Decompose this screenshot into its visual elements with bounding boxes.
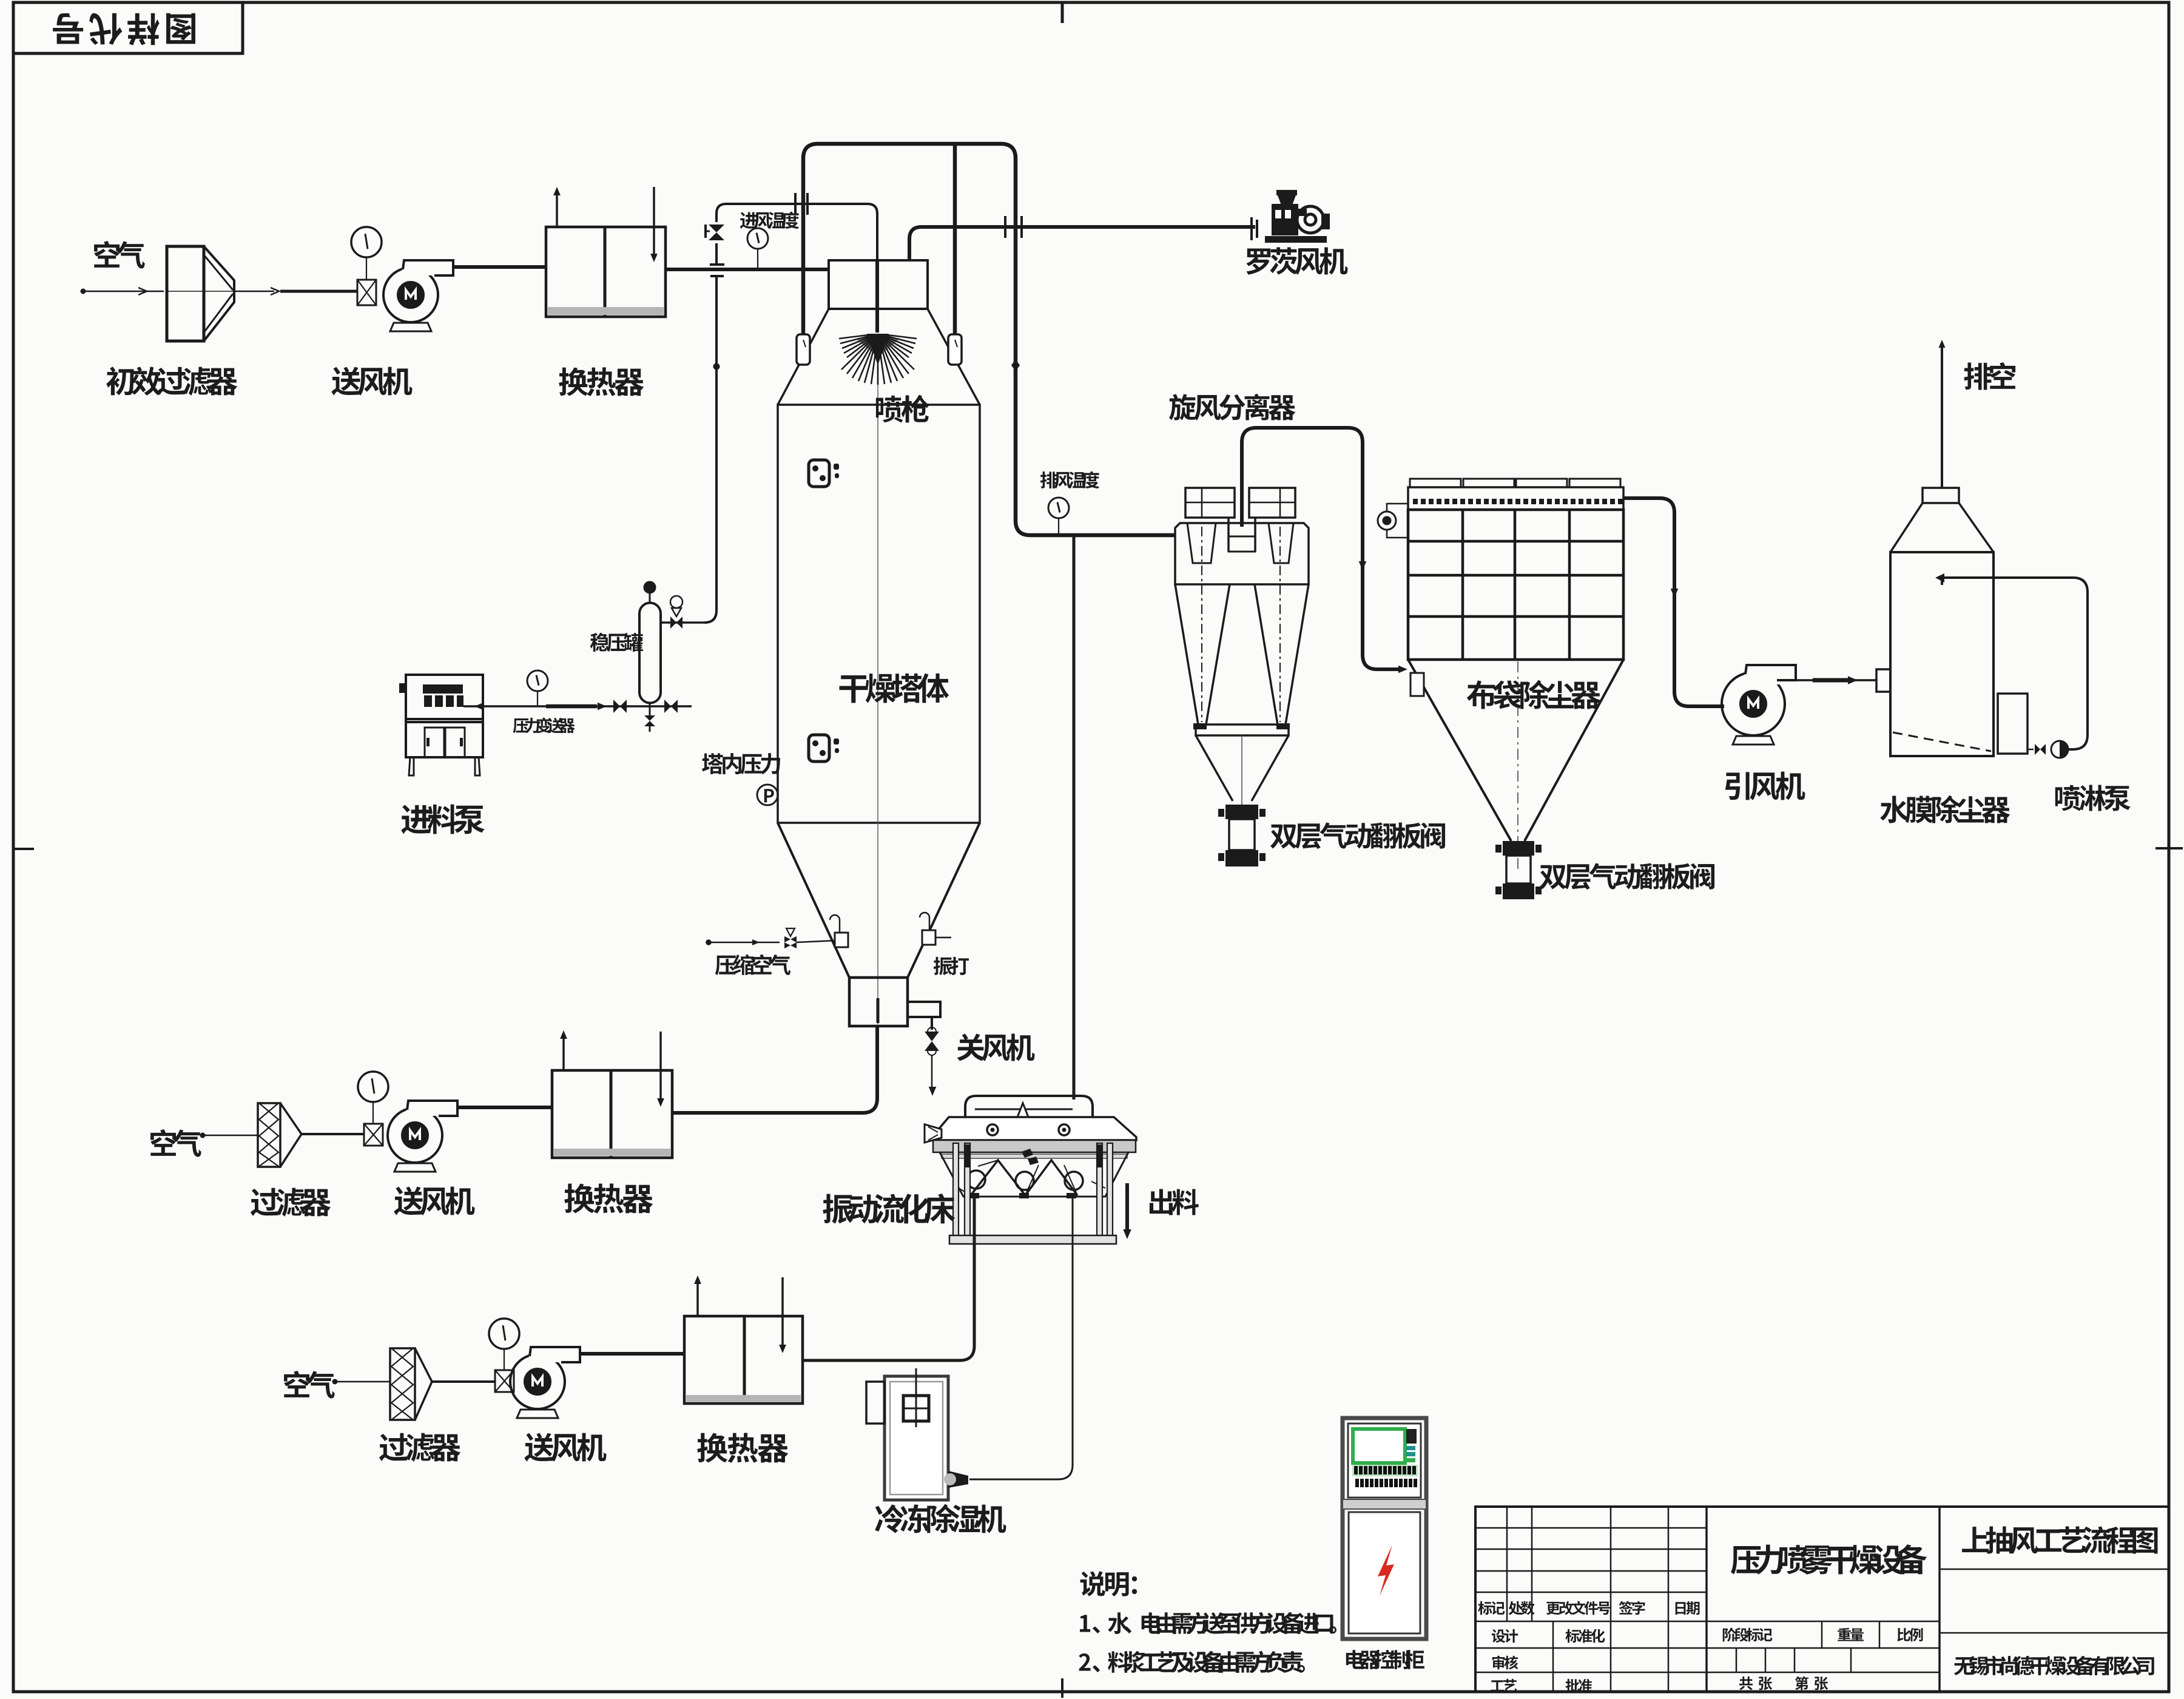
freeze dehumidifier 冷冻除湿机	[885, 1376, 948, 1500]
water film scrubber 水膜除尘器	[1923, 488, 1959, 503]
air inlet line	[82, 291, 164, 292]
vessel drain valve	[649, 703, 651, 716]
bed eccentric bolts	[1022, 1149, 1033, 1158]
label 送风机 (middle)	[394, 1187, 474, 1215]
label 振打 (smudged)	[934, 957, 969, 975]
rotary valve 关风机	[931, 1017, 933, 1030]
filter 过滤器 (middle)	[258, 1103, 280, 1167]
label 水膜除尘器	[1880, 795, 2010, 823]
border centering tick right	[2155, 847, 2183, 849]
label 双层气动翻板阀 (bag filter)	[1540, 863, 1714, 890]
heat exchanger 换热器 (top)	[546, 227, 666, 317]
compressed air line 压缩空气	[706, 940, 711, 945]
flexible joint (square with X)	[357, 280, 376, 305]
bed right underside duct to dehumidifier	[969, 1198, 1073, 1479]
vessel top outlet line w/ valve	[661, 621, 704, 624]
label 过滤器 (middle)	[251, 1188, 331, 1217]
label 关风机	[957, 1034, 1035, 1061]
tower body 干燥塔体	[778, 405, 980, 823]
hopper inlet notch	[1410, 673, 1424, 696]
riser globe valve w/ handle	[709, 225, 724, 240]
sight glass lower	[809, 735, 829, 762]
cyclone outlet pipe to bag filter	[1242, 428, 1403, 669]
tower cone	[778, 823, 980, 978]
vibrating fluid bed 振动流化床	[965, 1096, 1093, 1117]
feed line from pump	[463, 705, 649, 708]
label 空气 (top air inlet)	[94, 241, 145, 269]
steam arrow down	[653, 187, 655, 257]
bed legs	[953, 1143, 959, 1238]
label 送风机	[331, 367, 412, 396]
fan to scrubber line	[1796, 679, 1876, 681]
vortex finders	[1187, 523, 1216, 563]
label 送风机 (bottom)	[524, 1433, 606, 1462]
gauge 进风温度	[757, 249, 758, 269]
filter hopper	[1408, 660, 1623, 841]
border centering tick left	[13, 848, 34, 850]
lance end mark	[877, 998, 880, 1023]
shoulder nozzle right	[948, 334, 962, 365]
discharge arrow 出料	[1125, 1183, 1129, 1229]
flap valve (bag filter)	[1503, 841, 1534, 856]
title block small labels	[1478, 1601, 1505, 1615]
top plenum	[1408, 487, 1623, 510]
bed left underside duct to heater3	[803, 1198, 974, 1360]
label 换热器 (middle)	[564, 1183, 653, 1213]
label 压缩空气	[715, 954, 790, 975]
joint + gauge	[364, 1124, 383, 1146]
filter 过滤器 (bottom)	[390, 1348, 415, 1420]
steam arrow up	[556, 192, 558, 227]
rotated text 图样代号	[53, 13, 195, 46]
fluid bed exhaust riser	[1073, 535, 1076, 1099]
center connector	[1228, 518, 1255, 552]
cyclone cones	[1175, 584, 1309, 725]
label 换热器 (bottom)	[697, 1433, 788, 1462]
sight glass upper	[809, 460, 829, 487]
label 振动流化床	[823, 1194, 955, 1224]
red lightning symbol	[1378, 1545, 1394, 1596]
feed valve 1	[613, 700, 627, 713]
bag filter outlet to fan	[1623, 498, 1724, 706]
buffer vessel 稳压罐	[639, 603, 661, 703]
air hammer nozzle left	[830, 915, 840, 934]
main hot air line to tower header	[666, 268, 829, 271]
blower 送风机 (bottom)	[510, 1354, 565, 1409]
label 旋风分离器	[1169, 394, 1296, 421]
flanges at crossing	[1004, 216, 1006, 238]
tower outlet box	[849, 978, 908, 1026]
tower side outlet	[908, 1002, 940, 1017]
label 干燥塔体	[839, 674, 949, 703]
title box top-left (rotated drawing-code box)	[13, 2, 243, 53]
cyclone body	[1175, 523, 1309, 584]
blower 送风机 (top)	[383, 268, 438, 322]
label 空气 (bottom)	[284, 1371, 335, 1399]
primary filter 初效过滤器	[167, 246, 204, 341]
label 电器控制柜	[1346, 1650, 1424, 1669]
recirculation pipe	[1944, 578, 2088, 749]
spray lance	[875, 260, 879, 333]
tower top header box	[829, 260, 928, 309]
label 罗茨风机	[1246, 248, 1347, 275]
label 喷淋泵	[2055, 785, 2131, 811]
flap valve (cyclone) 双层气动翻板阀	[1225, 805, 1258, 819]
roots blower 罗茨风机	[1250, 217, 1253, 240]
label 布袋除尘器	[1467, 680, 1601, 709]
shoulder nozzle left	[797, 334, 810, 365]
dp gauge	[1378, 512, 1396, 530]
junction dot on riser	[713, 363, 720, 370]
exhaust top pipe	[803, 144, 1175, 535]
riser crossing flanges on main air line	[710, 263, 724, 266]
label 压力变送器 (smudged)	[513, 718, 575, 734]
label 排空	[1964, 362, 2015, 390]
label 喷枪	[876, 395, 929, 423]
border centering tick bottom	[1061, 1678, 1063, 1698]
gauge at blower	[366, 257, 367, 280]
bed deck	[932, 1117, 1136, 1140]
flanges on feed line	[794, 193, 797, 215]
label 双层气动翻板阀 (cyclone)	[1270, 822, 1445, 849]
tower shoulder	[778, 309, 980, 405]
label 引风机	[1725, 772, 1805, 800]
label 冷冻除湿机	[875, 1504, 1006, 1533]
feed pressure gauge	[537, 692, 538, 706]
spray pump 喷淋泵	[2051, 741, 2068, 758]
label 排风温度 (smudged)	[1040, 471, 1099, 489]
title block table	[1475, 1507, 2169, 1692]
line filter to blower	[234, 291, 274, 292]
label 稳压罐 (smudged)	[590, 633, 643, 652]
bed inlet clip	[925, 1124, 942, 1143]
riser top elbow to lance	[716, 204, 877, 260]
label 空气 (middle)	[150, 1129, 201, 1157]
tower centerline	[877, 340, 878, 1024]
blower 送风机 (middle)	[388, 1108, 442, 1163]
spray plume 喷枪	[839, 335, 917, 385]
bag filter 布袋除尘器 top caps	[1410, 479, 1461, 487]
tower discharge pipe to train1 line	[672, 1026, 877, 1113]
collector	[1196, 725, 1289, 735]
air hammer nozzle right 振打	[920, 913, 929, 932]
label 塔内压力	[702, 753, 780, 774]
roots blower line	[909, 227, 1255, 260]
label 出料	[1150, 1189, 1199, 1215]
feed pump 进料泵 cabinet	[406, 675, 483, 722]
gauge 排风温度	[1058, 518, 1059, 535]
induced draft fan 引风机	[1722, 672, 1785, 735]
heater1 outlet line	[672, 1111, 686, 1115]
bed trough + springs	[940, 1152, 1128, 1197]
label 上抽风工艺流程图	[1962, 1526, 2157, 1554]
label 压力喷雾干燥设备	[1731, 1544, 1927, 1575]
notes 说明	[1080, 1571, 1137, 1596]
air line	[200, 1135, 258, 1137]
control cabinet 电器控制柜	[1343, 1418, 1426, 1639]
heat exchanger 换热器 (middle)	[552, 1070, 672, 1158]
label 初效过滤器	[106, 366, 237, 396]
label 过滤器 (bottom)	[379, 1433, 460, 1462]
tower pressure gauge P 塔内压力	[757, 785, 778, 805]
label 换热器	[559, 367, 644, 396]
heat exchanger 换热器 (bottom)	[684, 1316, 803, 1403]
centerlines	[1201, 527, 1202, 722]
label 无锡市尚德干燥设备有限公司	[1954, 1656, 2154, 1675]
feed riser elbow	[704, 277, 716, 623]
twin cyclone 旋风分离器	[1185, 488, 1235, 518]
label 进风温度 (smudged)	[740, 212, 799, 229]
bed bottom frame	[949, 1235, 1116, 1244]
filter grid body	[1408, 510, 1623, 660]
exhaust downpipe mid	[953, 144, 957, 336]
pump legs	[409, 757, 414, 775]
feed valve 2	[664, 700, 678, 713]
line blower to heat exchanger	[453, 265, 546, 269]
border centering tick top	[1061, 2, 1064, 23]
junction dot exhaust	[1011, 359, 1020, 371]
label 进料泵	[401, 805, 485, 834]
stack 排空	[1941, 343, 1943, 488]
dehumidifier outlet	[948, 1471, 968, 1488]
